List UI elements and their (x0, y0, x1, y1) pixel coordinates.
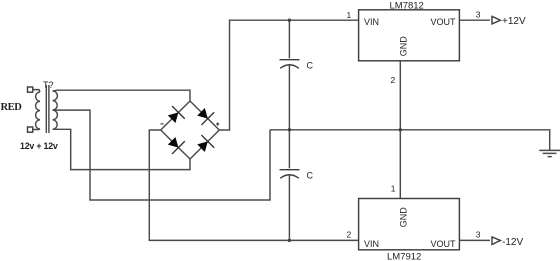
wire primary top lead (33, 90, 40, 92)
regulator U2 LM7912 box (359, 199, 460, 250)
wire secondary center tap to ground riser (53, 110, 270, 200)
capacitor C bottom plate (upper) (280, 169, 300, 171)
diode D1 bridge upper-left (165, 106, 185, 126)
wire bridge plus node to LM7812 VIN (219, 20, 358, 130)
wire LM7812 VOUT pin 3 (459, 19, 490, 21)
svg-text:1: 1 (391, 184, 396, 194)
wire capacitor C top to ground rail (288, 65, 290, 130)
wire secondary bottom tap to bridge bottom node (53, 129, 190, 169)
transformer T? primary terminal top square (28, 87, 33, 92)
svg-text:2: 2 (347, 230, 352, 240)
wire ground rail to LM7912 GND pin 1 (399, 130, 401, 199)
junction node at -12V input wire and capacitor (288, 239, 291, 242)
svg-text:3: 3 (476, 9, 481, 19)
svg-text:VOUT: VOUT (431, 17, 457, 27)
svg-text:GND: GND (398, 207, 408, 228)
svg-text:+12V: +12V (502, 16, 526, 27)
wire filter capacitor chain vertical top lead (288, 20, 290, 58)
svg-text:VIN: VIN (364, 17, 379, 27)
transformer T? primary terminal bottom square (28, 127, 33, 132)
svg-text:-12V: -12V (502, 237, 523, 248)
svg-text:RED: RED (1, 102, 23, 113)
wire primary bottom lead (33, 128, 40, 131)
svg-text:LM7812: LM7812 (390, 0, 424, 11)
wire ground rail to capacitor C bottom (288, 130, 290, 169)
node plus label (216, 122, 219, 125)
node minus label (161, 123, 164, 125)
diode D4 bridge lower-right (195, 135, 215, 155)
diode D2 bridge upper-right (195, 105, 215, 125)
capacitor C top curved plate (280, 65, 299, 69)
svg-text:C: C (307, 171, 314, 181)
wire bridge minus node to LM7912 VIN (149, 130, 358, 240)
regulator U1 LM7812 box (359, 10, 460, 61)
ground symbol (539, 150, 560, 156)
output port symbol -12V (492, 237, 500, 245)
svg-text:GND: GND (398, 36, 408, 57)
diode D3 bridge lower-left (165, 134, 185, 154)
junction node at +12V input wire and capacitor (288, 19, 291, 22)
wire secondary top tap to bridge top node (53, 90, 190, 101)
output port symbol +12V (492, 16, 500, 24)
svg-text:T?: T? (43, 80, 54, 90)
svg-text:VOUT: VOUT (431, 239, 457, 249)
svg-text:12v + 12v: 12v + 12v (20, 141, 58, 151)
wire LM7812 GND pin 2 to ground rail (399, 61, 401, 130)
transformer T? secondary winding (53, 91, 58, 129)
transformer core (46, 85, 49, 133)
svg-text:2: 2 (391, 75, 396, 85)
junction node at ground rail and GND pins (399, 128, 402, 131)
wire LM7912 VOUT pin 3 (459, 239, 490, 241)
bridge rectifier diamond (161, 101, 220, 159)
svg-text:LM7912: LM7912 (387, 251, 421, 261)
wire ground rail (270, 130, 550, 151)
capacitor C top plate (upper) (280, 59, 300, 61)
junction node at ground rail and capacitor chain (288, 128, 291, 131)
svg-text:C: C (307, 61, 314, 71)
svg-text:3: 3 (476, 230, 481, 240)
capacitor C bottom curved plate (280, 175, 299, 179)
transformer T? primary winding (36, 92, 40, 129)
wire capacitor C bottom to minus rail (288, 175, 290, 240)
svg-text:1: 1 (347, 10, 352, 20)
svg-text:VIN: VIN (364, 239, 379, 249)
